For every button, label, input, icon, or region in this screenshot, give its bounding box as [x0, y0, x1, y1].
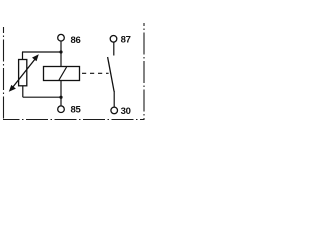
wire 85 terminal [60, 97, 62, 106]
wire top horizontal [22, 51, 61, 53]
terminal 30 [111, 107, 118, 114]
wire bottom horizontal [23, 96, 61, 98]
bottom border [3, 119, 145, 121]
svg-text:86: 86 [71, 35, 81, 46]
svg-text:87: 87 [121, 34, 131, 45]
wire resistor top stub [22, 52, 24, 60]
wire resistor bottom stub [22, 86, 24, 97]
resistor R (variable) [19, 60, 27, 86]
terminal 85 [58, 106, 65, 113]
svg-text:30: 30 [121, 106, 131, 117]
node junction bottom [59, 96, 62, 99]
wire coil top [60, 52, 62, 67]
right border [143, 23, 145, 120]
node junction top [59, 50, 62, 53]
wire 86 to junction [60, 41, 62, 52]
terminal 86 [58, 34, 65, 41]
svg-text:85: 85 [71, 105, 82, 116]
terminal 87 [110, 36, 117, 43]
arrow (adjustable, double-headed) [9, 54, 39, 92]
relay coil K [44, 67, 80, 81]
relay body outline (dash-dot box) [3, 23, 145, 120]
coil diagonal [59, 67, 67, 80]
wire 30 terminal [113, 91, 115, 107]
left border [3, 27, 5, 120]
switch blade [108, 57, 115, 92]
wire coil bottom [60, 81, 62, 98]
actuation link (dashed) [82, 72, 109, 74]
wire 87 fixed contact [113, 42, 115, 55]
